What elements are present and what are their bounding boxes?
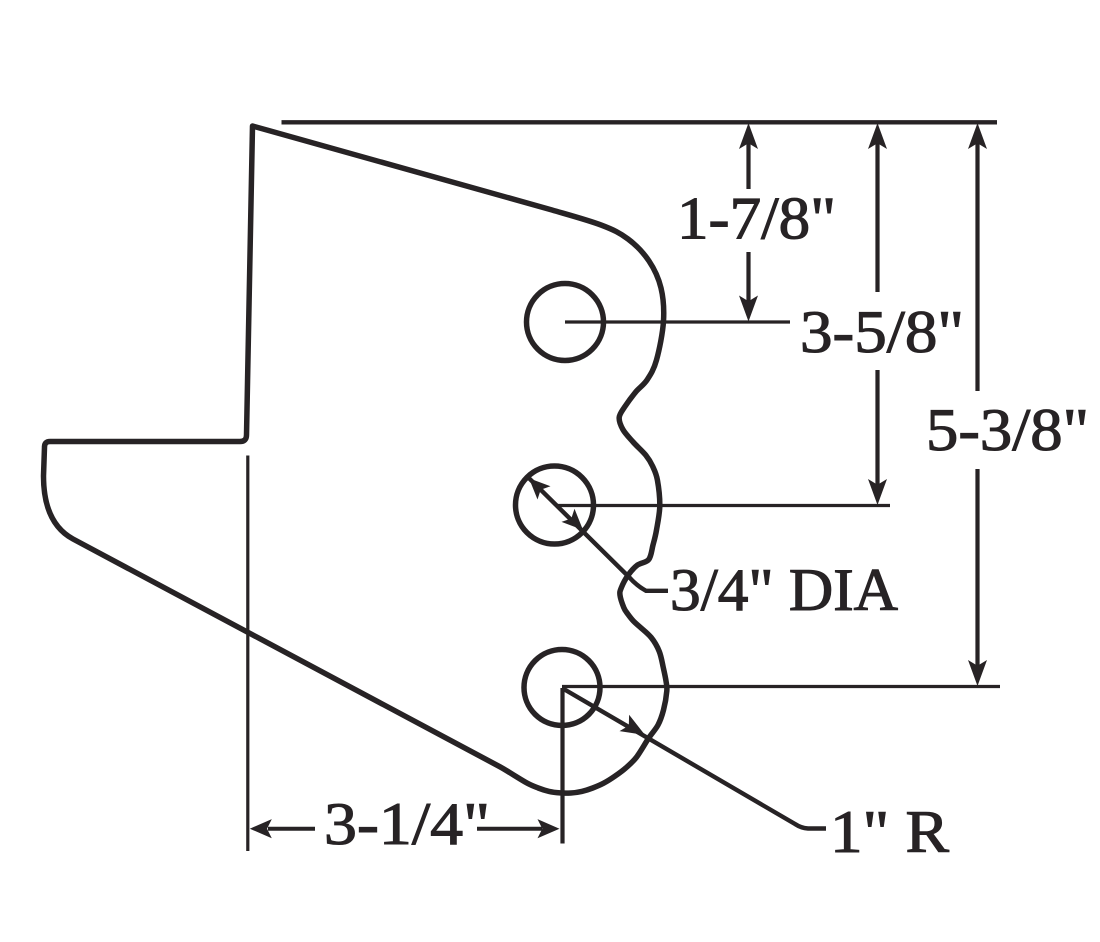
hole 3 center line (562, 685, 1000, 688)
dimension 3-1/4 left shaft (268, 827, 315, 831)
dimension 3-5/8 upper shaft (875, 140, 879, 292)
dimension 3-5/8 lower shaft (875, 370, 879, 496)
dimension 1-7/8 lower shaft (746, 252, 750, 310)
svg-text:3-1/4": 3-1/4" (324, 791, 490, 857)
dimension 3-1/4 right arrow (538, 819, 560, 838)
dimension 5-3/8 lower arrow (968, 660, 987, 686)
svg-text:5-3/8": 5-3/8" (926, 397, 1089, 463)
dimension 5-3/8 upper shaft (975, 140, 979, 391)
svg-text:3-5/8": 3-5/8" (800, 299, 964, 365)
svg-text:1" R: 1" R (830, 799, 949, 865)
dimension 3-1/4 left arrow (250, 819, 272, 838)
dimension 5-3/8 upper arrow (968, 123, 987, 149)
dimension 3-5/8 upper arrow (868, 123, 887, 149)
dimension 3-5/8 lower arrow (868, 479, 887, 505)
right extension line (560, 688, 564, 844)
hole 3 (bottom) (524, 650, 600, 726)
dimension 1-7/8 upper arrow (739, 123, 758, 149)
top reference line (282, 120, 998, 124)
svg-text:1-7/8": 1-7/8" (677, 186, 836, 252)
part outline (bracket with scalloped edge) (44, 126, 667, 793)
leader 1in R arrow (620, 715, 646, 735)
hole 2 (middle) (516, 466, 594, 544)
dimension 3-1/4 right shaft (477, 827, 542, 831)
hole 1 (top) (527, 284, 604, 361)
hole 1 center line (565, 320, 790, 323)
hole 2 center line (556, 504, 890, 507)
leader 1in R line (562, 688, 826, 829)
dimension 1-7/8 upper shaft (746, 140, 750, 189)
leader 3/4 DIA lower arrow (562, 509, 584, 530)
left extension line (246, 456, 249, 852)
dimension 5-3/8 lower shaft (975, 469, 979, 677)
leader 3/4 DIA upper arrow (529, 478, 551, 499)
leader 3/4 DIA diagonal (529, 478, 668, 591)
svg-text:3/4" DIA: 3/4" DIA (670, 557, 898, 623)
dimension 1-7/8 lower arrow (739, 296, 758, 322)
